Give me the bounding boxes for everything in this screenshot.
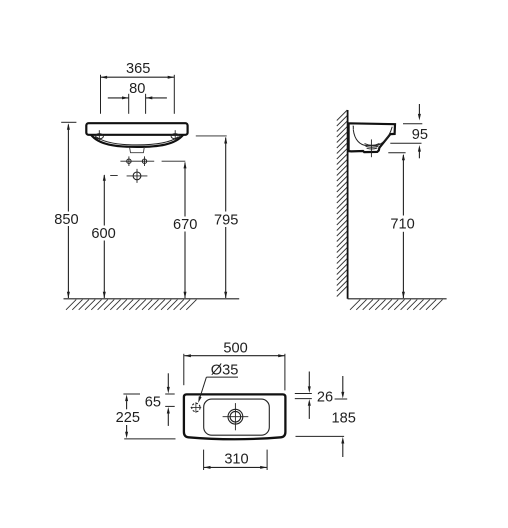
dimension 310 [203, 450, 205, 470]
svg-text:225: 225 [116, 410, 140, 426]
svg-text:65: 65 [145, 394, 161, 410]
svg-text:710: 710 [390, 217, 414, 233]
wall hatch (side view) [337, 110, 348, 297]
front view: drain funnel outline [130, 147, 145, 153]
svg-text:95: 95 [412, 127, 428, 143]
svg-text:185: 185 [332, 411, 356, 427]
front view: bowl underside (thick curve) [91, 135, 183, 147]
plan view: faucet hole (dashed circle) [192, 403, 200, 411]
side view: inner bowl curve [353, 127, 392, 146]
floor hatch (front view ground) [66, 300, 197, 310]
dimension 225 [123, 393, 140, 395]
svg-text:26: 26 [317, 390, 333, 406]
side view: drain centreline [370, 139, 372, 157]
ground line under side view [348, 298, 447, 300]
floor hatch (side view) [350, 300, 443, 310]
svg-text:795: 795 [214, 213, 238, 229]
plan drain crosshair [223, 416, 249, 418]
front view: bowl inner thin curve [96, 137, 178, 145]
side view: drain dome [365, 143, 380, 145]
plan view: basin outer outline [184, 394, 286, 439]
side view: inner rim step [352, 126, 355, 130]
dimension 710 [388, 152, 405, 154]
plan view: drain circles [228, 409, 243, 424]
front view: right fixing hole [171, 134, 179, 139]
side view: basin profile outline [349, 123, 395, 152]
svg-text:500: 500 [223, 340, 247, 356]
drain crosshair [127, 175, 148, 177]
dimension 185 [335, 398, 348, 400]
front view: siphon drain circle [133, 172, 141, 180]
svg-text:670: 670 [173, 217, 197, 233]
front view: left fixing hole [95, 134, 103, 139]
dimension 95 [403, 123, 422, 125]
svg-text:310: 310 [224, 451, 248, 467]
dimension 26 [295, 393, 312, 395]
dimension 670 [162, 160, 186, 162]
svg-text:600: 600 [91, 226, 115, 242]
wall line [347, 110, 349, 299]
plan view: faucet hole crosshair [191, 407, 202, 409]
svg-text:80: 80 [129, 81, 145, 97]
dimension 795 [196, 135, 227, 137]
svg-text:365: 365 [126, 61, 150, 77]
svg-text:Ø35: Ø35 [211, 362, 239, 378]
dimension 850 [61, 121, 76, 123]
svg-text:850: 850 [54, 212, 78, 228]
dimension 600 [110, 175, 118, 177]
ground line under front view [64, 298, 240, 300]
centreline through bolt holes [120, 160, 154, 162]
front view: basin rim [86, 123, 187, 135]
plan view: inner bowl [204, 399, 270, 435]
front view: fixing bolt holes pair [127, 159, 131, 163]
